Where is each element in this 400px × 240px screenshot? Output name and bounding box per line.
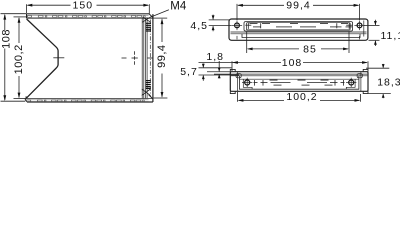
svg-text:100,2: 100,2 [286,91,317,103]
recess frame inner [246,23,350,30]
chevron fold line (side panel) [26,19,58,98]
vertical center mark x=134.6 [134,51,136,64]
rail left end closures [26,14,28,18]
X bracket bottom right [142,89,151,95]
screw bracket left [243,79,252,89]
screw left (bottom rail) [245,80,250,85]
top groove lines [231,74,368,76]
screw thread block top right (hatched) [146,23,151,31]
inner shelf lines [231,32,367,34]
svg-text:1,8: 1,8 [206,51,224,63]
connector guide rails (right side of left view) [142,18,147,98]
bottom rail slots [27,100,145,102]
screw thread block bottom right (hatched) [146,81,151,89]
horizontal center line dashes [122,57,154,59]
svg-text:18,3: 18,3 [377,77,400,89]
left curl detail [236,74,241,78]
screw hole right (top rail) [357,23,362,28]
bottom-left rounded corner [25,98,29,102]
bottom lip [242,34,360,38]
screw bracket right [346,79,355,89]
inner left wall line [237,72,239,91]
top rail band lines [27,15,149,17]
X bracket top right [142,17,150,22]
center line dashes (bottom rail) [254,82,345,84]
bevel corner top right [149,14,153,18]
recess top line [240,78,359,80]
svg-text:108: 108 [282,57,303,69]
top rail (left view) [26,14,152,18]
connector center line x=150.3 (dash-dot) [149,20,151,98]
svg-text:99,4: 99,4 [286,0,310,11]
inner right wall line [360,72,362,91]
recess outline [240,76,359,89]
bottom rail band lines [27,99,149,101]
screw right (bottom rail) [349,80,354,85]
screw hole left (top rail) [235,23,240,28]
svg-text:85: 85 [303,43,317,55]
svg-text:150: 150 [73,0,94,12]
cross marks (top rail) [245,23,352,29]
right curl detail [357,74,362,78]
chevron center cross [53,57,64,59]
rail outline [229,19,368,40]
corner lip tabs [230,69,235,71]
svg-text:5,7: 5,7 [180,66,198,78]
svg-text:99,4: 99,4 [156,44,168,67]
bottom rail (left view) [26,99,153,103]
svg-text:11,1: 11,1 [381,30,400,42]
svg-text:M4: M4 [170,0,187,12]
cross marks (bottom rail) [255,80,344,86]
bevel corner bottom right [149,95,153,99]
thread dashes upper/lower rows (bottom rail) [270,80,333,85]
svg-text:108: 108 [1,29,13,49]
rail outline (bottom view) [230,72,368,92]
top rail slots [27,15,145,17]
right outer wall [152,14,154,102]
svg-text:4,5: 4,5 [190,20,208,32]
svg-text:100,2: 100,2 [13,44,25,74]
thread strip marks (top rail recess) [250,23,353,27]
recess frame outer [244,22,353,31]
